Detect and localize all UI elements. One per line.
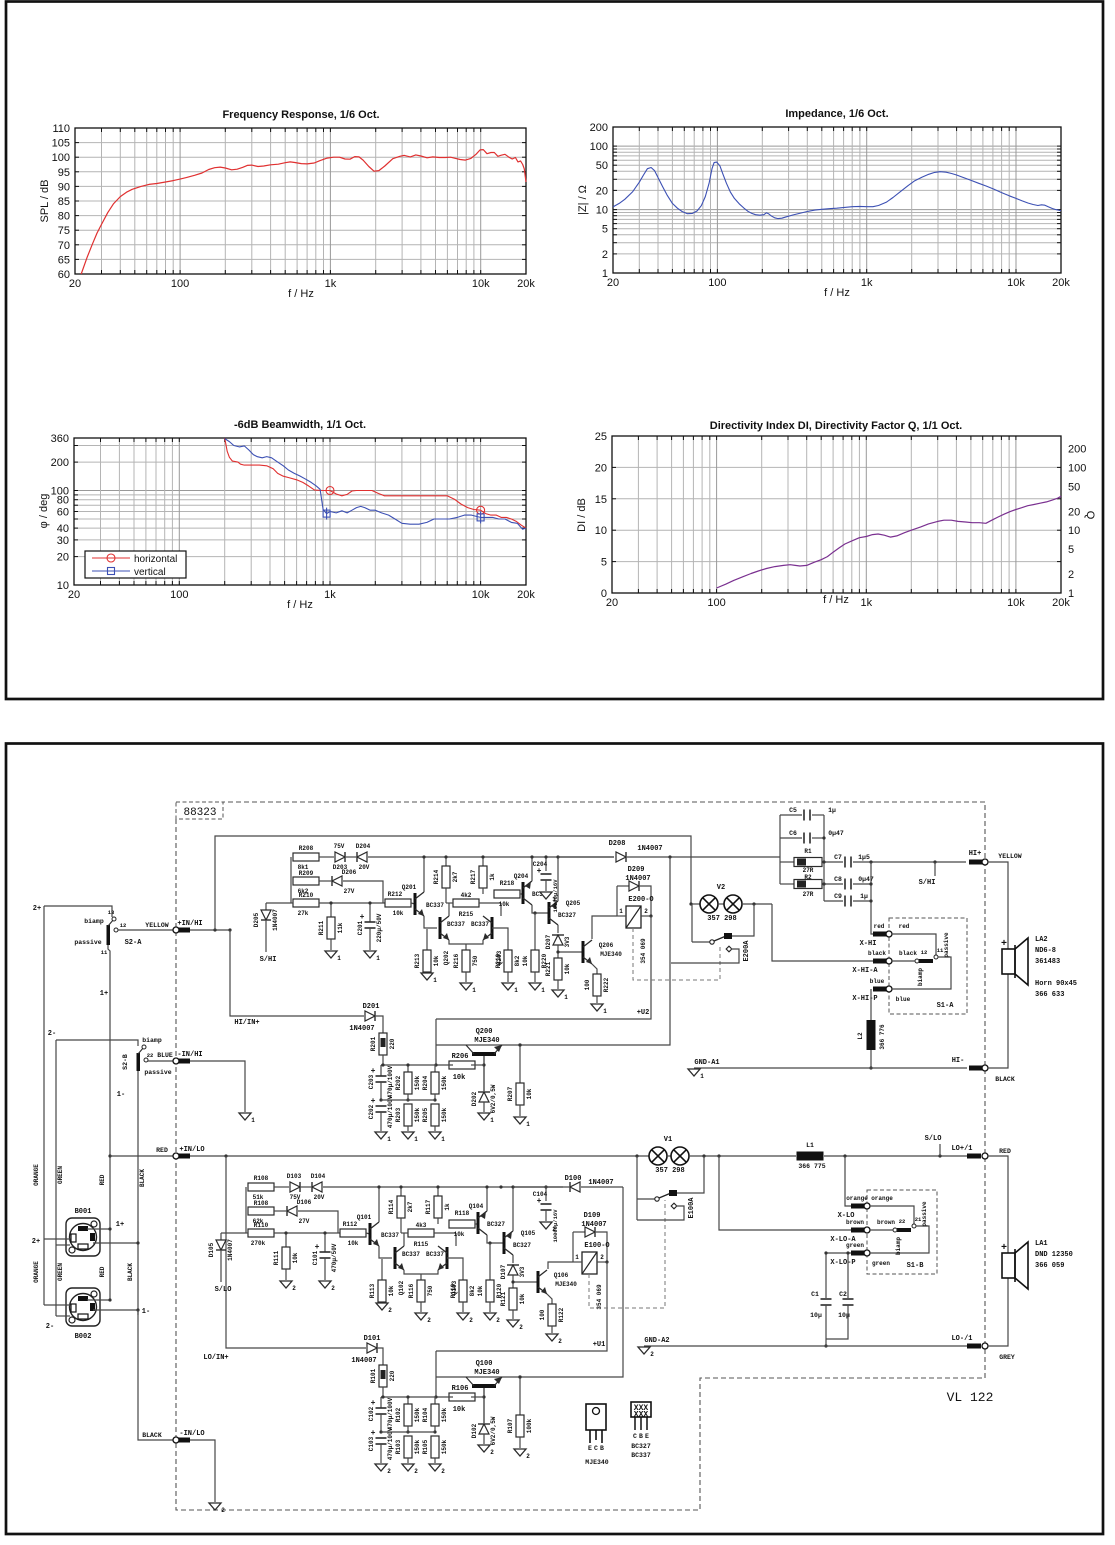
svg-text:C: C [633, 1433, 637, 1440]
svg-text:3V3: 3V3 [519, 1266, 526, 1277]
svg-text:B: B [600, 1445, 604, 1452]
svg-text:220µ/50V: 220µ/50V [376, 913, 383, 942]
wire +IN/LO main [190, 1155, 649, 1157]
svg-text:100: 100 [52, 152, 70, 164]
wire D208 output down to +U2 rail [436, 857, 670, 1045]
svg-text:R116: R116 [408, 1283, 415, 1298]
resistor R205 [431, 1104, 439, 1126]
ground C caps [375, 1464, 387, 1471]
ground GND-A1 [688, 1069, 700, 1076]
svg-text:1k: 1k [325, 278, 337, 290]
svg-text:Q101: Q101 [357, 1214, 372, 1221]
svg-text:f / Hz: f / Hz [823, 594, 849, 606]
capacitor C1 [821, 1298, 832, 1300]
svg-text:f / Hz: f / Hz [287, 599, 313, 611]
svg-text:f / Hz: f / Hz [288, 288, 314, 300]
wire diff pair emitters [404, 1270, 438, 1274]
resistor R101 [379, 1365, 387, 1387]
svg-text:MJE340: MJE340 [585, 1459, 609, 1466]
svg-text:2+: 2+ [33, 905, 41, 913]
wire LO- to speaker [988, 1278, 1008, 1346]
svg-text:2: 2 [650, 1351, 654, 1358]
svg-text:10k: 10k [453, 1074, 466, 1082]
svg-text:1N4007: 1N4007 [349, 1025, 374, 1033]
relay contact E100A [636, 1156, 638, 1220]
svg-text:B001: B001 [75, 1208, 92, 1216]
svg-text:passive: passive [144, 1069, 171, 1076]
svg-text:1: 1 [433, 977, 437, 984]
capacitor C8 [844, 879, 846, 890]
svg-text:354 069: 354 069 [640, 938, 647, 964]
svg-text:R102: R102 [395, 1407, 402, 1422]
lamp V1a [649, 1147, 667, 1165]
svg-text:2: 2 [469, 1317, 473, 1324]
relay pin 2 [641, 915, 651, 917]
svg-text:1: 1 [700, 1073, 704, 1080]
ground R220 [529, 983, 541, 990]
svg-text:5: 5 [601, 557, 607, 569]
svg-text:13: 13 [108, 909, 115, 916]
svg-text:85: 85 [58, 196, 70, 208]
svg-text:0µ47: 0µ47 [828, 830, 844, 837]
svg-text:100: 100 [539, 1309, 546, 1320]
svg-text:R122: R122 [558, 1307, 565, 1322]
svg-text:+IN/LO: +IN/LO [179, 1146, 204, 1154]
wire [274, 1210, 286, 1212]
diode D205 [266, 902, 291, 904]
wire HI+ to speaker [988, 862, 1008, 949]
svg-text:S/LO: S/LO [215, 1286, 232, 1294]
svg-text:R112: R112 [343, 1221, 358, 1228]
svg-text:R119: R119 [450, 1283, 457, 1298]
svg-text:2-: 2- [46, 1323, 54, 1331]
svg-text:S/HI: S/HI [919, 879, 936, 887]
svg-text:+: + [1001, 1243, 1007, 1254]
package MJE340 pinout [586, 1404, 606, 1430]
svg-text:biamp: biamp [84, 918, 104, 925]
svg-text:11k: 11k [337, 922, 344, 933]
network row [381, 1064, 436, 1066]
wire relay pin2 to +U1 [436, 1262, 607, 1351]
lamp V2b [718, 903, 724, 905]
svg-text:+: + [371, 1067, 376, 1076]
wire relay pin2 to +U2 [436, 916, 651, 1019]
svg-text:D101: D101 [364, 1335, 381, 1343]
svg-text:1N4007: 1N4007 [351, 1357, 376, 1365]
resistor R212 [385, 899, 411, 907]
svg-text:Q201: Q201 [402, 884, 417, 891]
svg-text:MJE340: MJE340 [555, 1281, 577, 1288]
svg-text:C1: C1 [811, 1291, 819, 1298]
svg-text:VL 122: VL 122 [947, 1390, 994, 1405]
svg-text:BC337: BC337 [402, 1251, 420, 1258]
resistor R201 [379, 1033, 387, 1055]
svg-text:B: B [639, 1433, 643, 1440]
wire Q206 base [558, 951, 583, 953]
svg-text:HI/IN+: HI/IN+ [234, 1019, 259, 1027]
net S/HI right [934, 862, 936, 876]
svg-text:1µ5: 1µ5 [858, 854, 870, 861]
svg-text:+IN/HI: +IN/HI [177, 920, 202, 928]
svg-text:1: 1 [387, 1136, 391, 1143]
svg-text:R101: R101 [370, 1368, 377, 1383]
+U1 rail upper [435, 1019, 437, 1065]
resistor R219 [504, 950, 512, 972]
svg-text:C102: C102 [368, 1406, 375, 1421]
ground D202 [478, 1113, 490, 1120]
svg-text:R202: R202 [395, 1075, 402, 1090]
wire Q103 base [447, 1258, 463, 1280]
ground C204 [540, 892, 552, 899]
svg-text:MJE340: MJE340 [474, 1037, 499, 1045]
svg-text:C5: C5 [789, 807, 797, 814]
resistor R213 [426, 929, 428, 950]
svg-text:2: 2 [552, 1226, 556, 1233]
svg-text:BC337: BC337 [447, 921, 465, 928]
+U2 rail upper [435, 1351, 437, 1397]
capacitor C7 [844, 857, 846, 868]
resistor R121 [509, 1288, 517, 1310]
svg-text:C103: C103 [368, 1436, 375, 1451]
svg-text:horizontal: horizontal [134, 554, 177, 565]
resistor R207 [519, 1045, 521, 1083]
svg-text:brown: brown [877, 1219, 895, 1226]
capacitor C6 [780, 837, 802, 839]
svg-text:1N4007: 1N4007 [581, 1221, 606, 1229]
capacitor C101 [324, 1233, 326, 1252]
svg-text:R105: R105 [422, 1439, 429, 1454]
wire Q105 collector [512, 1255, 514, 1263]
svg-text:R208: R208 [299, 845, 314, 852]
terminal HI- [969, 1066, 983, 1071]
svg-text:+: + [537, 1197, 542, 1206]
svg-text:vertical: vertical [134, 567, 166, 578]
svg-text:220: 220 [389, 1370, 396, 1381]
svg-text:2k7: 2k7 [452, 871, 459, 882]
svg-text:R106: R106 [452, 1385, 469, 1393]
svg-text:10k: 10k [499, 901, 510, 908]
svg-text:GREEN: GREEN [57, 1263, 64, 1281]
svg-text:BC337: BC337 [471, 921, 489, 928]
connector B001 [66, 1218, 100, 1256]
resistor R117 [437, 1187, 439, 1196]
terminal X-HI [873, 932, 887, 937]
svg-text:Q106: Q106 [554, 1272, 569, 1279]
switch box S1-B [867, 1190, 937, 1274]
svg-text:1: 1 [490, 1117, 494, 1124]
svg-text:D100: D100 [565, 1175, 582, 1183]
svg-text:10k: 10k [393, 910, 404, 917]
svg-text:1-: 1- [142, 1308, 150, 1316]
zener D103 [290, 1182, 300, 1192]
ground D102 [478, 1445, 490, 1452]
svg-text:D202: D202 [471, 1091, 478, 1106]
svg-text:366 059: 366 059 [1035, 1262, 1064, 1270]
transistor Q102 [394, 1247, 397, 1269]
svg-text:1: 1 [619, 908, 623, 915]
wire GREEN vertical [55, 1040, 57, 1316]
svg-text:R215: R215 [459, 911, 474, 918]
diode D209 [616, 886, 618, 916]
svg-text:R217: R217 [470, 869, 477, 884]
svg-text:SPL / dB: SPL / dB [39, 179, 51, 222]
svg-text:X-HI-A: X-HI-A [852, 967, 878, 975]
zener D102 [479, 1424, 489, 1434]
svg-text:20: 20 [57, 552, 69, 564]
svg-text:Q202: Q202 [443, 950, 450, 965]
svg-text:1µ: 1µ [828, 807, 836, 814]
wire D201 to R201 [376, 1016, 383, 1033]
switch S2-B [137, 1053, 141, 1071]
wire Q101 emitter to Q102 [379, 1246, 392, 1258]
resistor R102 [407, 1397, 409, 1404]
svg-text:4k3: 4k3 [416, 1222, 427, 1229]
ground R103 [402, 1464, 414, 1471]
zener D202 [479, 1092, 489, 1102]
svg-text:20: 20 [69, 278, 81, 290]
wire S2-A passive down (RED) [108, 945, 110, 1300]
wire Q204 emitter [531, 857, 533, 881]
svg-text:100: 100 [170, 589, 188, 601]
transistor Q205 [548, 902, 551, 924]
svg-text:2: 2 [331, 1285, 335, 1292]
resistor R111 [285, 1233, 287, 1247]
lamp V1b [667, 1155, 671, 1157]
svg-text:passive: passive [943, 932, 950, 958]
svg-text:BLACK: BLACK [142, 1432, 162, 1439]
svg-text:80: 80 [58, 211, 70, 223]
svg-text:R216: R216 [453, 953, 460, 968]
svg-text:5: 5 [602, 224, 608, 236]
relay coil E100-O [582, 1252, 597, 1274]
resistor R113 [381, 1259, 383, 1280]
svg-text:2: 2 [292, 1285, 296, 1292]
resistor R203 [404, 1104, 412, 1126]
relay E200 linkage dashed [633, 928, 720, 980]
svg-text:1: 1 [603, 1008, 607, 1015]
wire [319, 880, 331, 882]
wire S2-A pin12 to +IN/HI [118, 929, 173, 931]
svg-text:R205: R205 [422, 1107, 429, 1122]
svg-text:150k: 150k [441, 1439, 448, 1454]
svg-text:GND-A2: GND-A2 [644, 1337, 669, 1345]
svg-text:S2-B: S2-B [122, 1054, 129, 1070]
svg-text:75V: 75V [334, 843, 345, 850]
svg-text:30: 30 [57, 535, 69, 547]
svg-text:150k: 150k [414, 1107, 421, 1122]
svg-text:12: 12 [120, 922, 127, 929]
svg-text:D107: D107 [500, 1264, 507, 1279]
svg-text:biamp: biamp [142, 1037, 162, 1044]
svg-text:red: red [874, 923, 885, 930]
resistor R204 [434, 1065, 436, 1072]
switch S1-B wiring [870, 1206, 914, 1224]
ground R122 [546, 1334, 558, 1341]
svg-text:20: 20 [607, 277, 619, 289]
svg-text:R204: R204 [422, 1075, 429, 1090]
svg-text:100: 100 [51, 486, 69, 498]
terminal X-HI-A [873, 959, 887, 964]
resistor R222 [593, 974, 601, 996]
svg-text:10k: 10k [453, 1406, 466, 1414]
relay pin 2 [597, 1261, 607, 1263]
svg-text:ORANGE: ORANGE [33, 1261, 40, 1283]
relay pin 1 [617, 915, 626, 917]
svg-text:1N4007: 1N4007 [272, 909, 279, 931]
svg-text:C: C [594, 1445, 598, 1452]
terminal -IN/HI [177, 1059, 190, 1064]
transistor Q200 [472, 1052, 496, 1056]
board label box 88323 [176, 802, 223, 819]
svg-text:orange: orange [846, 1195, 868, 1202]
inductor L1 [797, 1152, 824, 1161]
svg-text:2: 2 [600, 1254, 604, 1261]
svg-text:C101: C101 [312, 1250, 319, 1265]
svg-text:20: 20 [1068, 506, 1080, 518]
capacitor C9 [824, 900, 843, 902]
svg-text:MJE340: MJE340 [600, 951, 622, 958]
svg-text:750: 750 [472, 955, 479, 966]
svg-text:+: + [1001, 939, 1007, 950]
svg-text:passive: passive [921, 1201, 928, 1227]
svg-text:D106: D106 [297, 1199, 312, 1206]
svg-text:D109: D109 [584, 1212, 601, 1220]
svg-text:R115: R115 [414, 1241, 429, 1248]
svg-text:BC327: BC327 [558, 912, 576, 919]
svg-text:10k: 10k [519, 1293, 526, 1304]
svg-text:black: black [868, 950, 886, 957]
switch S1-A wiring [892, 934, 936, 955]
transistor Q100 [472, 1384, 496, 1388]
wire GND-A2 [644, 1345, 967, 1347]
transistor Q201 [414, 893, 417, 915]
svg-text:V2: V2 [717, 884, 725, 892]
svg-text:100: 100 [590, 141, 608, 153]
ground R211 [325, 951, 337, 958]
svg-text:+U1: +U1 [593, 1341, 606, 1349]
terminal X-HI-P [873, 987, 887, 992]
svg-text:50: 50 [596, 160, 608, 172]
svg-text:40: 40 [57, 523, 69, 535]
svg-text:R207: R207 [507, 1086, 514, 1101]
svg-text:R117: R117 [425, 1199, 432, 1214]
svg-text:70: 70 [58, 240, 70, 252]
svg-text:357 298: 357 298 [655, 1167, 684, 1175]
ground R113 [376, 1303, 388, 1310]
svg-text:RED: RED [999, 1148, 1011, 1155]
wire Q106 emitter [547, 1294, 552, 1304]
svg-text:22: 22 [147, 1052, 154, 1059]
svg-text:Q102: Q102 [398, 1280, 405, 1295]
wire Q203 collector [500, 903, 502, 916]
resistor R2 [780, 883, 794, 885]
svg-text:110: 110 [52, 123, 70, 135]
svg-text:100: 100 [708, 277, 726, 289]
lamp V2a [691, 903, 700, 905]
diode D208 [558, 856, 614, 858]
wire GND-A1 [694, 1067, 967, 1069]
svg-text:DND 12350: DND 12350 [1035, 1251, 1073, 1259]
svg-text:BC337: BC337 [426, 902, 444, 909]
wire ORANGE vertical [43, 906, 45, 1305]
svg-text:470µ/100V: 470µ/100V [387, 1065, 394, 1098]
svg-text:S1-A: S1-A [937, 1002, 955, 1010]
terminal +IN/LO [110, 1155, 173, 1157]
wire V2 to crossover [742, 903, 772, 905]
relay pin 1 [573, 1261, 582, 1263]
resistor R206 [449, 1061, 475, 1069]
svg-text:366 775: 366 775 [798, 1163, 825, 1170]
svg-text:D206: D206 [342, 869, 357, 876]
ground R120 [484, 1313, 496, 1320]
svg-text:R110: R110 [254, 1222, 269, 1229]
svg-text:green: green [872, 1260, 890, 1267]
svg-text:R114: R114 [388, 1199, 395, 1214]
speaker LA1 [1002, 1253, 1015, 1278]
svg-text:200: 200 [51, 457, 69, 469]
svg-text:-6dB Beamwidth, 1/1 Oct.: -6dB Beamwidth, 1/1 Oct. [234, 419, 366, 431]
svg-text:BC337: BC337 [381, 1232, 399, 1239]
svg-text:S2-A: S2-A [125, 939, 143, 947]
svg-text:50: 50 [1068, 481, 1080, 493]
wire left bus amp 1 [245, 1187, 247, 1233]
svg-text:L1: L1 [806, 1142, 814, 1149]
svg-text:1: 1 [552, 896, 556, 903]
svg-text:1: 1 [541, 987, 545, 994]
svg-text:BC337: BC337 [426, 1251, 444, 1258]
svg-text:12: 12 [921, 949, 928, 956]
svg-text:10k: 10k [526, 1088, 533, 1099]
svg-text:R113: R113 [369, 1283, 376, 1298]
svg-text:2: 2 [427, 1317, 431, 1324]
svg-text:10k: 10k [477, 1285, 484, 1296]
svg-text:LA1: LA1 [1035, 1240, 1048, 1248]
svg-text:|Z| / Ω: |Z| / Ω [577, 185, 589, 215]
svg-text:S/LO: S/LO [925, 1135, 942, 1143]
transistor Q202 [439, 917, 442, 939]
svg-text:R103: R103 [395, 1439, 402, 1454]
diode D201 [365, 1011, 375, 1021]
svg-text:V1: V1 [664, 1136, 672, 1144]
svg-text:+: + [315, 1243, 320, 1252]
resistor R214 [445, 857, 447, 866]
svg-text:27V: 27V [344, 888, 355, 895]
svg-text:D103: D103 [287, 1173, 302, 1180]
svg-text:R121: R121 [500, 1291, 507, 1306]
relay contact E200A [691, 904, 693, 942]
svg-text:10k: 10k [348, 1240, 359, 1247]
svg-text:2k7: 2k7 [407, 1201, 414, 1212]
svg-text:150k: 150k [441, 1407, 448, 1422]
terminal X-LO [851, 1204, 865, 1209]
svg-text:10k: 10k [564, 963, 571, 974]
svg-text:88323: 88323 [183, 807, 216, 819]
svg-text:D207: D207 [545, 934, 552, 949]
ground R222 [591, 1004, 603, 1011]
svg-text:2: 2 [644, 908, 648, 915]
ground R105 [429, 1464, 441, 1471]
svg-text:357 298: 357 298 [707, 915, 736, 923]
svg-text:R218: R218 [500, 880, 515, 887]
svg-text:-IN/LO: -IN/LO [179, 1430, 204, 1438]
svg-text:HI-: HI- [952, 1057, 965, 1065]
ground R205 [429, 1132, 441, 1139]
svg-text:750: 750 [427, 1285, 434, 1296]
svg-text:65: 65 [58, 254, 70, 266]
svg-text:150k: 150k [414, 1439, 421, 1454]
svg-text:R209: R209 [299, 870, 314, 877]
svg-text:10k: 10k [454, 1231, 465, 1238]
